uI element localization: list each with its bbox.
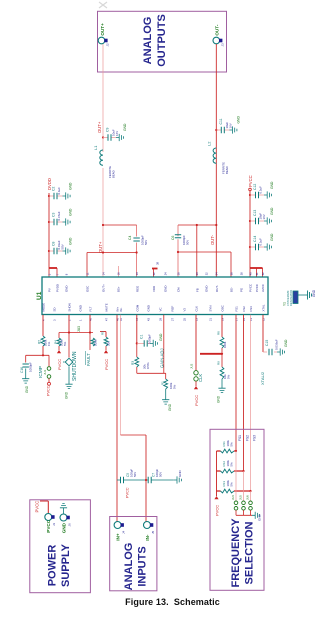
svg-text:OUT-: OUT- [215,24,220,35]
svg-text:29: 29 [158,318,162,321]
capacitor C11 [221,127,224,133]
svg-text:OSC: OSC [221,305,225,311]
wire jumper to terminal [48,378,50,382]
wire FS3 vertical [250,315,252,491]
svg-text:PV: PV [48,288,52,292]
svg-text:BEAD: BEAD [225,166,229,174]
svg-text:PVCC: PVCC [255,284,259,292]
wire OUT- vertical [215,44,217,277]
value R4 [60,339,68,346]
label Y1 oscillator [283,290,294,306]
svg-text:PVCC: PVCC [249,284,253,292]
ground at C8 [63,247,71,254]
capacitor C12 [256,192,259,198]
svg-text:PVCC: PVCC [35,501,40,513]
shutdown diamond test point [63,333,73,382]
svg-text:50V: 50V [61,244,65,249]
svg-text:JU4: JU4 [231,495,235,500]
wire DVDD rail vertical [48,193,50,268]
svg-text:ANALOG: ANALOG [123,543,135,591]
svg-text:C11: C11 [219,118,223,124]
svg-text:OUT+: OUT+ [97,121,102,133]
capacitor C15 [269,349,272,355]
capacitor C8 [54,248,57,254]
node R11 [235,450,237,452]
node OUT- bypass junction [215,129,217,131]
wire sense stub left to chip [86,253,88,278]
wire C16 drop [25,355,27,362]
svg-text:5%: 5% [230,442,234,447]
U1 bottom pin numbers [41,318,265,321]
svg-text:8: 8 [64,273,68,275]
svg-text:GND: GND [25,385,29,393]
svg-text:50V: 50V [159,472,163,477]
svg-text:0.5%: 0.5% [146,362,150,369]
wire MODE pin down [42,315,44,336]
jumper JU4 [234,501,238,510]
wire FS1 to jumper [235,451,237,501]
value L1 ferrite bead [108,166,116,178]
svg-text:47: 47 [104,318,108,321]
svg-text:CLK: CLK [195,306,199,312]
wire between R8 R9 [221,348,223,367]
svg-text:FS2: FS2 [242,306,246,312]
wire mid feedback to chip [196,225,198,277]
net flag PVCC at R4 [57,350,62,370]
ground at C3 [63,218,71,225]
svg-text:OUT-: OUT- [215,285,219,292]
resistor R8 [220,337,224,348]
ground at Y1 [308,291,312,300]
svg-text:R3: R3 [131,361,135,365]
svg-text:V2: V2 [183,308,187,312]
connector J4 IN+ [114,522,125,541]
svg-text:20k: 20k [107,341,111,346]
svg-text:43: 43 [146,318,150,321]
ground at C12 [264,191,272,198]
wire IN- lower vertical [145,435,147,522]
svg-text:BEAD: BEAD [112,170,116,178]
svg-text:25: 25 [182,318,186,321]
wire SHDN pin down [68,315,70,333]
svg-text:38: 38 [156,261,160,265]
svg-text:L1: L1 [93,145,98,150]
connector J5 IN- [144,522,155,541]
svg-text:OSC: OSC [86,286,90,292]
capacitor C9 leads [103,137,116,139]
wire FS3 to jumper [250,491,252,501]
frequency selection box [210,429,264,590]
svg-text:0.1uF: 0.1uF [259,238,263,246]
svg-text:0.1uF: 0.1uF [57,187,61,195]
value C14 [259,238,263,246]
resistor R11 row lead [217,450,237,452]
svg-text:11: 11 [85,272,89,275]
svg-text:50V: 50V [144,240,148,245]
wire FLT pin down [89,315,91,333]
svg-text:45: 45 [119,318,123,321]
svg-text:OUT+: OUT+ [98,241,103,253]
svg-text:20: 20 [135,272,139,275]
resistor R12 row lead [217,470,244,472]
wire stub pin 18 [118,266,120,277]
svg-text:38: 38 [239,272,243,275]
wire C6 vertical [177,225,179,277]
wire feedback H1 right [178,224,216,226]
svg-text:C12: C12 [253,184,257,190]
wire XTAL pin down [262,315,264,352]
wire OUT+ vertical upper [102,44,104,138]
svg-text:CLK: CLK [198,374,203,382]
svg-text:C13: C13 [253,210,257,216]
capacitor C1 leads [137,342,150,344]
jumper JU2 [194,371,198,382]
svg-text:1: 1 [78,319,82,321]
wire sense stub right to chip [230,252,232,277]
inductor L2 ferrite bead [213,148,216,163]
svg-text:FS3: FS3 [253,435,257,441]
wire FLT below [89,333,91,351]
svg-text:JU6: JU6 [245,495,249,500]
svg-text:PVCC: PVCC [126,487,130,498]
ground at C11 [229,126,237,133]
svg-text:GND: GND [312,289,316,297]
ground at C1 [150,340,158,347]
power supply title [47,543,73,587]
value C12 [259,186,263,194]
svg-text:FS1: FS1 [238,435,242,441]
PVCC rail terminal [249,188,252,191]
svg-text:PVDD: PVDD [56,284,60,292]
svg-text:41: 41 [255,272,259,275]
svg-text:CM: CM [177,287,181,292]
wire strap stub [153,269,155,278]
value C1 [148,334,152,344]
wire feedback H2 left [87,252,137,254]
capacitor C5 input [121,477,124,483]
value C9 [112,129,120,136]
svg-text:R2: R2 [38,340,42,344]
node OUT- feedback tap [215,224,217,226]
wire stub DVDD pin b [56,268,58,277]
svg-text:GND: GND [147,305,151,311]
wire R5 to flag [105,346,107,350]
U1 bottom pin names [42,303,266,312]
svg-text:32: 32 [204,272,208,275]
svg-text:U1: U1 [36,291,43,300]
svg-text:C14: C14 [253,236,257,242]
svg-text:GND: GND [69,182,73,190]
svg-text:VDD: VDD [152,286,156,292]
wire C4 vertical [136,225,138,277]
wire IN- upper vertical [120,315,122,435]
svg-text:C9: C9 [106,128,110,132]
svg-text:IN-: IN- [119,308,123,312]
resistor R2 inline [41,336,45,346]
wire feedback H1 left [103,224,137,226]
svg-text:J3: J3 [221,43,225,47]
svg-text:1000pF: 1000pF [148,334,152,344]
analog inputs title [123,543,149,591]
svg-text:16V: 16V [262,214,266,219]
value R2 [44,339,52,346]
svg-text:GND: GND [270,233,274,241]
wire R4 drop [58,333,60,339]
node PVCC C13 junction [249,220,251,222]
svg-text:GND: GND [79,305,83,311]
svg-text:J2: J2 [106,43,110,47]
svg-text:PVCC: PVCC [47,385,51,396]
svg-text:SD: SD [53,307,57,311]
capacitor C14 [256,244,259,250]
inductor L1 ferrite bead [100,150,103,165]
svg-text:100k: 100k [94,339,98,346]
value C6 [182,235,190,245]
U1 top pin names [48,284,266,292]
svg-text:Figure 13. Schematic: Figure 13. Schematic [125,597,220,607]
node shutdown bus b [89,331,91,333]
svg-text:GND: GND [69,208,73,216]
svg-text:14: 14 [101,272,105,275]
frequency selection title [230,518,256,588]
svg-text:SHDN: SHDN [68,303,72,311]
wire JU2 to flag [195,381,197,386]
ground at C14 [264,243,272,250]
capacitor C14 leads [250,246,264,248]
svg-text:R8: R8 [217,331,221,335]
value C2 [57,187,61,195]
resistor R12 [221,469,235,473]
svg-text:XTAL/2: XTAL/2 [260,371,265,385]
analog inputs box [110,517,157,591]
wire jumper drop [48,355,50,366]
svg-text:40: 40 [248,272,252,275]
svg-text:RESONATOR: RESONATOR [289,290,293,306]
svg-text:L2: L2 [206,141,211,146]
node H1 right mid junction [196,224,198,226]
wire ICMP tee horizontal [26,354,49,356]
svg-text:SELECTION: SELECTION [244,521,256,584]
svg-text:MODE: MODE [42,303,46,312]
svg-text:GND: GND [61,522,66,533]
value C11 [225,122,233,129]
svg-text:26: 26 [176,272,180,275]
capacitor C13 leads [250,220,264,222]
node shutdown bus a [68,331,70,333]
value L2 ferrite bead [221,162,229,174]
svg-text:C4: C4 [128,236,132,240]
svg-text:IN-: IN- [145,534,150,541]
node R13 [249,490,251,492]
svg-text:100k: 100k [223,341,227,348]
value R3 [143,362,151,369]
wire FS2 vertical [243,315,245,471]
svg-text:GND: GND [159,333,163,341]
svg-text:GND: GND [217,395,221,403]
svg-text:SYN: SYN [209,306,213,312]
svg-text:J5: J5 [151,531,155,535]
svg-text:13: 13 [249,318,253,321]
svg-text:1000pF: 1000pF [29,362,33,372]
svg-text:GND: GND [168,403,172,411]
connector J2 OUT+ [98,23,110,47]
wire FS1 vertical [235,315,237,451]
svg-text:GND: GND [65,391,69,399]
capacitor C12 leads [250,194,264,196]
svg-text:36: 36 [229,272,233,275]
wire feedback H2 right [178,251,231,253]
svg-text:ICMP: ICMP [38,366,44,378]
ground at J6 [60,503,67,511]
node COM junction [136,342,138,344]
svg-text:27: 27 [170,318,174,321]
svg-text:1%: 1% [47,341,51,346]
svg-text:Y1: Y1 [283,302,287,306]
svg-text:0.47uF: 0.47uF [57,211,61,220]
svg-text:J4: J4 [121,531,125,535]
wire shutdown bus [59,332,93,334]
value R12 [226,460,234,467]
svg-text:GND: GND [258,514,262,522]
net flag PVCC at JU2 [194,386,199,406]
node OSC junction [221,353,223,355]
jumper JU5 [242,501,246,510]
jumper JU6 [249,501,253,510]
net flag PVCC select [214,496,219,516]
wire jumpers to ground bus [236,510,252,515]
svg-text:BS-: BS- [230,287,234,292]
ground at input filter [174,476,182,483]
svg-text:AVCC: AVCC [261,284,265,292]
ground at R1 [165,389,167,397]
svg-text:MUTE: MUTE [105,303,109,311]
svg-text:22: 22 [152,272,156,275]
wire OUT+ between junction and bead [102,138,104,153]
svg-text:5%: 5% [227,374,231,379]
page artifact mark [99,2,107,8]
svg-text:BS+: BS+ [117,286,121,292]
svg-text:GND: GND [270,181,274,189]
value C15 [275,339,279,350]
svg-text:5%: 5% [230,482,234,487]
svg-text:GND: GND [236,116,240,124]
ground at C2 [63,192,71,199]
svg-text:34: 34 [215,272,219,275]
capacitor C6 [175,235,181,238]
svg-text:GND: GND [178,470,182,478]
svg-text:C8: C8 [52,242,56,246]
capacitor C13 [256,218,259,224]
svg-text:5%: 5% [173,384,177,389]
wire stub DVDD pin a [48,268,50,277]
svg-text:J1: J1 [52,523,56,527]
strap jog near pin 38 [152,268,158,270]
value C13 [259,213,267,220]
svg-text:OUT+: OUT+ [100,23,105,36]
U1 top pin numbers [47,272,265,275]
svg-text:JU5: JU5 [238,495,242,500]
svg-text:VC: VC [159,307,163,311]
resistor R1 [164,379,168,389]
resistor R13 [221,489,235,493]
svg-text:ANALOG: ANALOG [142,17,154,65]
svg-text:C2: C2 [52,187,56,191]
node input filter crossing [145,479,147,481]
svg-text:GND: GND [205,286,209,292]
capacitor C2 leads [49,195,63,197]
svg-text:GAIN-ADJ: GAIN-ADJ [159,348,164,368]
resistor R3 [136,343,138,357]
svg-text:GND: GND [69,237,73,245]
connector J6 GND [60,514,71,533]
wire stub PVCC pin a [249,268,251,277]
wire SYNC thick segment [200,353,222,355]
svg-text:IN+: IN+ [115,533,120,541]
svg-text:PVCC: PVCC [194,395,199,406]
svg-text:30: 30 [195,272,199,275]
svg-text:C1: C1 [140,335,144,339]
oscillator Y1 module [293,291,308,304]
resistor R13 row lead [217,490,251,492]
wire R4 to flag [58,346,60,350]
svg-text:GND: GND [123,123,127,131]
power supply box [30,500,91,593]
value C3 [57,211,61,220]
ground at R9 [221,379,223,385]
svg-text:R4: R4 [54,340,58,344]
svg-text:16V: 16V [228,123,232,128]
wire PVCC to AVCC jog [250,267,263,269]
capacitor C16 [23,364,29,367]
node C4 sense junction [136,251,138,253]
PVCC terminal ICMP [48,382,51,385]
value C7 [155,469,163,477]
capacitor C15 leads [263,351,277,353]
value R13 [226,480,234,487]
svg-text:FS3: FS3 [249,306,253,312]
svg-text:COM: COM [136,304,140,311]
wire gain adj loop [137,315,166,379]
resistor R5 [104,337,108,346]
connector J3 OUT- [213,24,225,46]
wire DVDD jog [49,267,57,269]
ground at shutdown [65,381,72,389]
ground at C16 [22,376,29,384]
wire select rail [216,451,218,496]
node PVCC C14 junction [249,246,251,248]
capacitor C3 [54,219,57,225]
svg-text:0.1uF: 0.1uF [259,186,263,194]
svg-text:PVCC: PVCC [215,505,220,516]
svg-text:OUT+: OUT+ [102,284,106,292]
svg-text:3: 3 [52,319,56,321]
net flag PVCC at R5 [104,350,109,370]
value C5 [130,469,138,477]
node OUT+ bypass junction [102,136,104,138]
svg-text:5: 5 [47,273,51,275]
value R1 [169,382,177,389]
net label FAULT [86,351,91,366]
svg-text:C16: C16 [20,367,24,373]
svg-text:C6: C6 [171,236,175,240]
svg-text:50V: 50V [186,240,190,245]
wire J6 to ground [63,511,65,514]
svg-text:5%: 5% [230,462,234,467]
wire FS2 to jumper [243,471,245,501]
svg-text:FLT: FLT [89,306,93,311]
svg-text:16: 16 [116,272,120,275]
node DVDD C2 junction [48,195,50,197]
